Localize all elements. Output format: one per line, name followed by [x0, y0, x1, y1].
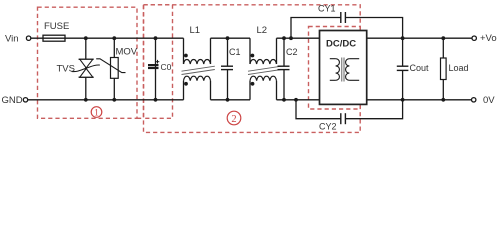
svg-text:C1: C1 [229, 47, 241, 57]
capacitor C0 (polarized) [148, 60, 159, 69]
junction CY1 tap [289, 36, 293, 40]
wire Load branch bottom [442, 80, 444, 100]
capacitor C2 [278, 66, 290, 69]
svg-text:DC/DC: DC/DC [326, 39, 356, 50]
dashed box 2 (EMI filter stage) [144, 5, 361, 133]
wire bottom rail input section [28, 99, 184, 101]
terminal 0V [472, 98, 476, 102]
wire C0 branch [155, 38, 157, 100]
circled number 1 [91, 107, 102, 119]
wire C1 branch bottom [227, 70, 229, 100]
svg-text:L2: L2 [257, 25, 268, 36]
varistor MOV [96, 58, 125, 79]
junction Load bottom [441, 98, 445, 102]
svg-text:2: 2 [231, 114, 236, 125]
wire C1 branch top [227, 38, 229, 66]
junction C1 bottom [226, 98, 230, 102]
wire bottom rail L1 to L2 [211, 99, 251, 101]
junction MOV bottom [112, 98, 116, 102]
capacitor Cout [397, 66, 409, 70]
svg-text:Vin: Vin [5, 34, 19, 45]
wire C2 branch bottom [283, 70, 285, 100]
dashed bottom link segment between box1 and C0 box [137, 117, 144, 119]
wire Cout branch top [402, 38, 404, 66]
common-mode choke L1 [182, 38, 215, 100]
junction TVS bottom [84, 98, 88, 102]
junction Load top [441, 36, 445, 40]
wire Cout branch bottom [402, 70, 404, 99]
wire CY2 right riser [345, 100, 402, 119]
TVS diode (bidirectional) [72, 59, 100, 77]
wire top rail L1 to L2 [211, 37, 251, 39]
svg-text:TVS: TVS [57, 63, 75, 74]
wire TVS branch [85, 38, 87, 100]
wire top rail L2 to DC/DC [277, 37, 321, 39]
svg-text:C0: C0 [161, 62, 172, 72]
junction C2 bottom [282, 98, 286, 102]
wire Load branch top [442, 38, 444, 58]
svg-text:CY1: CY1 [318, 4, 336, 14]
capacitor CY1 [341, 12, 346, 23]
svg-text:L1: L1 [190, 25, 201, 36]
terminal Vin [26, 36, 30, 40]
junction Cout top [401, 36, 405, 40]
junction C0 top [154, 36, 158, 40]
dashed box 1 (input protection) [38, 7, 138, 118]
resistor Load [441, 58, 447, 80]
DC/DC converter module U1 [320, 31, 367, 105]
common-mode choke L2 [248, 38, 281, 100]
junction Cout bottom [401, 98, 405, 102]
wire bottom rail L2 to DC/DC [277, 99, 321, 101]
wire C2 branch top [283, 38, 285, 66]
svg-text:FUSE: FUSE [44, 21, 69, 32]
wire top rail input section [31, 37, 184, 39]
svg-text:+Vo: +Vo [480, 33, 497, 44]
wire CY1 left riser [291, 18, 341, 39]
junction MOV top [112, 36, 116, 40]
junction C2 top [282, 36, 286, 40]
wire CY2 left riser [296, 100, 341, 119]
wire bottom rail output [367, 99, 472, 101]
junction C1 top [226, 36, 230, 40]
capacitor CY2 [341, 113, 346, 124]
wire top rail output [367, 37, 472, 39]
junction C0 bottom [154, 98, 158, 102]
terminal +Vo [472, 36, 476, 40]
svg-text:C2: C2 [286, 47, 298, 57]
svg-text:Load: Load [449, 63, 469, 73]
svg-text:CY2: CY2 [319, 122, 337, 132]
svg-text:1: 1 [94, 108, 99, 118]
junction TVS top [84, 36, 88, 40]
dashed box around C0 [144, 5, 173, 119]
terminal GND [23, 98, 27, 102]
svg-text:Cout: Cout [410, 63, 430, 73]
capacitor C1 [221, 66, 233, 69]
svg-text:0V: 0V [483, 95, 495, 106]
wire CY1 right riser [345, 18, 402, 39]
svg-text:GND: GND [2, 95, 23, 106]
circled number 2 [227, 111, 241, 125]
svg-text:MOV: MOV [116, 47, 138, 58]
dashed box 3 (DC/DC + Y-caps) [309, 27, 361, 110]
fuse F1 [43, 35, 65, 41]
junction CY2 tap [294, 98, 298, 102]
wire MOV branch [113, 38, 115, 100]
